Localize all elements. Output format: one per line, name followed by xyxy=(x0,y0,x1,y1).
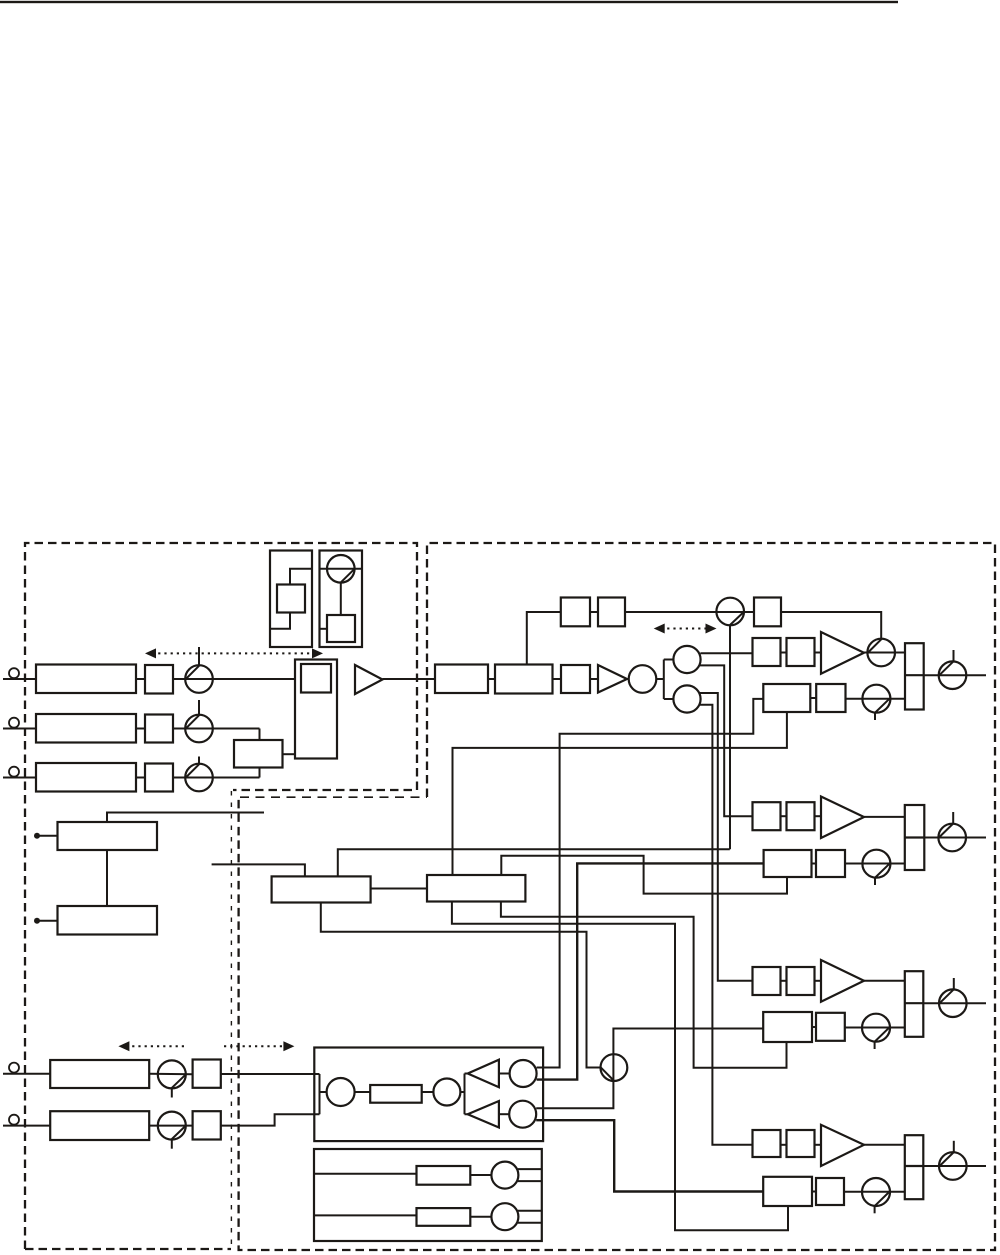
filter block F5 xyxy=(495,665,553,694)
G1 IF filter FL4 xyxy=(763,684,810,712)
output attenuator AT10 xyxy=(939,989,967,1017)
wire FL5 to Z6 xyxy=(812,863,817,865)
oscillator block U2 xyxy=(320,551,363,648)
AT2 control stem xyxy=(198,700,200,715)
amplifier A4 xyxy=(821,797,864,839)
amplifier A2 xyxy=(598,665,627,693)
control block U4 xyxy=(58,906,158,935)
RX Q-path wire MB to G2 IF filter xyxy=(537,863,764,1079)
wire Z3 to AT3 xyxy=(173,768,260,778)
Q-mixer upper wire to G3 xyxy=(699,693,752,981)
AT14 stem xyxy=(171,1088,173,1097)
wire Z5 to AT7 xyxy=(846,698,905,700)
wire F4 to F5 xyxy=(488,678,495,680)
LO tap to divider chain xyxy=(527,612,561,665)
dashed module A outline xyxy=(25,543,417,1249)
G3 filter block B3a xyxy=(753,967,781,995)
G3 filter block B3b xyxy=(787,967,815,995)
TX filter FL9 xyxy=(50,1111,149,1140)
AT10 stem xyxy=(953,978,955,990)
AT7 stem xyxy=(874,713,876,720)
bandpass filter FL2 xyxy=(36,714,136,743)
matching block Z10 xyxy=(193,1111,221,1139)
combiner CB1 xyxy=(234,740,283,768)
splitter to buffers xyxy=(460,1074,467,1115)
mixer box MB xyxy=(314,1048,543,1142)
loop filter LF2 xyxy=(417,1208,471,1226)
wire FL9 to AT15 xyxy=(149,1125,192,1127)
LO bus line to M6 (upper) xyxy=(537,1067,560,1069)
wire dot to U3 xyxy=(37,835,58,837)
divider block D1 xyxy=(561,598,590,627)
wire A3 to AT5 xyxy=(864,652,905,654)
top rule xyxy=(0,1,898,3)
bandpass filter FL1 xyxy=(36,665,136,694)
wire B4a-B4b xyxy=(781,1144,787,1146)
matching block Z6 xyxy=(816,850,845,877)
RX mixer M7 xyxy=(509,1101,536,1128)
wire A2 to MX1 xyxy=(627,678,629,680)
SW1 inner element xyxy=(301,664,331,693)
Q-upper bus wire to G2 xyxy=(699,665,752,816)
output attenuator AT8 xyxy=(938,824,966,852)
G3 IF filter FL6 xyxy=(763,1012,812,1042)
TX port P5 xyxy=(9,1115,19,1125)
TX filter FL8 xyxy=(50,1060,149,1088)
matching block Z8 xyxy=(816,1178,844,1205)
wire F10 to M5 xyxy=(422,1091,434,1093)
variable attenuator AT3 xyxy=(185,764,213,792)
SY2 top wire to G1 IF filter xyxy=(453,712,787,875)
U2 inner square xyxy=(327,615,355,642)
matching block Z7 xyxy=(816,1013,845,1041)
wire Z10 to mixer box xyxy=(221,1114,314,1125)
variable attenuator AT2 xyxy=(185,715,213,743)
TX tuning range arrow xyxy=(126,1045,287,1047)
synthesizer block SY1 xyxy=(272,876,371,902)
buffer amp A8 xyxy=(468,1101,499,1128)
wire FL6 to Z7 xyxy=(812,1026,816,1028)
mixer MX1 xyxy=(629,665,657,693)
G4 IF filter FL7 xyxy=(763,1177,812,1206)
variable attenuator AT15 xyxy=(158,1112,186,1140)
tuning range arrow (left module) xyxy=(152,652,316,654)
SY1 output to TX LO attenuator xyxy=(321,903,601,1068)
Q-mixer M3 xyxy=(673,685,700,712)
matching block Z1 xyxy=(145,665,173,694)
feedback wire AT4-bus to SY1 xyxy=(338,849,730,876)
U2 internal line xyxy=(320,568,363,570)
switch block SW1 xyxy=(295,660,337,759)
wire P1 to FL1 xyxy=(3,678,36,680)
dashed module A inner divider xyxy=(230,791,232,1249)
MB input bracket xyxy=(314,1074,326,1114)
wire CB3 to AT8 xyxy=(924,837,986,839)
combiner CB5 xyxy=(905,1135,924,1199)
matching block Z3 xyxy=(145,764,173,792)
AT12 stem xyxy=(953,1141,955,1153)
synthesizer block SY2 xyxy=(427,875,525,902)
wire CB1 to SW1 xyxy=(283,753,296,755)
G2 filter block B2b xyxy=(787,802,815,830)
RX input port P2 xyxy=(9,718,19,728)
reference wire into SY1 xyxy=(212,864,305,876)
wire FL7 to Z8 xyxy=(812,1191,816,1193)
RX input port P1 xyxy=(9,668,19,678)
U3 top stub wire xyxy=(107,813,264,823)
wire Z4 to A2 xyxy=(590,678,598,680)
wire B4b to A6 xyxy=(815,1144,822,1146)
amplifier A1 xyxy=(355,665,383,694)
amplifier A3 xyxy=(821,632,864,674)
AT9 stem xyxy=(874,878,876,885)
wire FL4 to Z5 xyxy=(810,697,816,699)
wire A1 to module B xyxy=(383,678,436,680)
variable attenuator AT13 xyxy=(862,1178,890,1206)
wire LF1 to VCO1 xyxy=(470,1174,491,1176)
variable attenuator AT5 xyxy=(867,639,895,667)
bandpass filter FL3 xyxy=(36,763,136,792)
SY2 bottom wire to G4 IF filter xyxy=(452,902,788,1231)
variable attenuator AT9 xyxy=(862,850,890,878)
calibration block U1 xyxy=(270,551,312,648)
U2 stub xyxy=(320,628,328,630)
PLL box PL xyxy=(314,1149,542,1241)
wire A6 to CB5 xyxy=(864,1144,905,1146)
wire A8 to M7 xyxy=(499,1113,509,1115)
wire B3a-B3b xyxy=(781,980,787,982)
G4 filter block B4a xyxy=(753,1130,781,1157)
combiner CB4 xyxy=(905,971,924,1037)
dashed module B inner divider xyxy=(240,796,427,798)
buffer amp A7 xyxy=(468,1060,499,1088)
I-mixer upper wire to G1 xyxy=(700,652,752,654)
splitter bracket xyxy=(656,660,673,700)
AT8 stem xyxy=(952,812,954,824)
G2 filter block B2a xyxy=(753,802,781,830)
TX mixer M4 xyxy=(327,1078,355,1106)
amplifier A6 xyxy=(821,1125,864,1166)
VCO1 xyxy=(491,1162,518,1189)
LO attenuator AT16 xyxy=(601,1054,628,1081)
output attenuator AT6 xyxy=(939,661,967,689)
G1 filter block B1b xyxy=(787,638,815,666)
wire A7 to M6 xyxy=(499,1073,510,1075)
U1 internal wiring xyxy=(290,569,312,585)
wire U3 to U4 xyxy=(106,850,108,906)
variable attenuator AT14 xyxy=(158,1060,186,1088)
wire B3b to A5 xyxy=(815,980,822,982)
wire Z2 to AT2 xyxy=(173,729,260,741)
wire P2 to FL2 xyxy=(3,728,36,730)
AT1 control stem xyxy=(198,647,200,665)
matching block Z5 xyxy=(816,684,845,712)
wire P5 to FL9 xyxy=(3,1125,50,1127)
VCO2 output stubs xyxy=(518,1211,542,1223)
PLL chain 1 wire xyxy=(314,1173,417,1175)
wire Z1 to AT1 xyxy=(173,678,295,680)
variable attenuator AT11 xyxy=(862,1014,890,1042)
tuning range arrow (module B) xyxy=(661,628,709,630)
PLL chain 2 wire xyxy=(314,1214,417,1216)
wire B2a-B2b xyxy=(781,815,787,817)
AT11 stem xyxy=(874,1042,876,1049)
wire B1b to A3 xyxy=(815,652,822,654)
divider block D3 xyxy=(754,598,781,627)
variable attenuator AT7 xyxy=(862,685,890,713)
RX I2-path wire MB to G3 IF filter xyxy=(536,1029,763,1109)
wire CB5 to AT12 xyxy=(923,1165,986,1167)
RX mixer M6 xyxy=(510,1060,537,1087)
G4 filter block B4b xyxy=(787,1130,815,1157)
wire Z9 to mixer box xyxy=(221,1073,314,1075)
matching block Z9 xyxy=(193,1060,221,1088)
wire CB2 to AT6 xyxy=(924,674,986,676)
RX Q2-path wire MB to G4 IF filter xyxy=(536,1120,763,1191)
divider block D2 xyxy=(598,598,625,627)
U4 input dot xyxy=(34,918,40,924)
wire SY1 to SY2 xyxy=(371,888,427,890)
VCO2 xyxy=(491,1203,518,1230)
loop filter LF1 xyxy=(417,1166,471,1185)
AT4 output bus down xyxy=(729,625,731,849)
VCO1 output stubs xyxy=(518,1169,542,1181)
control block U3 xyxy=(58,822,158,850)
amplifier A5 xyxy=(821,960,864,1002)
U1 inner square xyxy=(277,585,305,613)
RX I-path wire MB to G1 IF filter xyxy=(537,699,763,1068)
output attenuator AT12 xyxy=(939,1152,967,1180)
wire D2 to AT4 xyxy=(625,611,754,613)
feedback wire D3 to AT5 xyxy=(781,612,881,639)
G1 filter block B1a xyxy=(753,638,781,666)
SY2 top wire to G2 IF filter xyxy=(501,856,787,894)
wire A5 to CB4 xyxy=(864,980,905,982)
variable attenuator AT4 xyxy=(716,598,744,626)
matching block Z4 xyxy=(561,665,590,693)
wire FL1 to Z1 xyxy=(136,678,145,680)
wire B1a-B1b xyxy=(781,652,787,654)
G2 IF filter FL5 xyxy=(764,850,812,877)
matching block Z2 xyxy=(145,715,173,743)
wire P4 to FL8 xyxy=(3,1073,50,1075)
SY2 bottom wire to G3 IF filter xyxy=(501,902,787,1068)
wire LF2 to VCO2 xyxy=(470,1216,491,1218)
dashed module B outline xyxy=(239,543,995,1250)
combiner CB2 xyxy=(905,643,924,709)
wire Z8 to AT13 xyxy=(844,1191,905,1193)
U2 vertical link xyxy=(340,583,342,616)
wire Z7 to AT11 xyxy=(845,1027,905,1029)
TX port P4 xyxy=(9,1063,19,1073)
AT15 stem xyxy=(171,1140,173,1149)
wire dot to U4 xyxy=(37,920,58,922)
wire M4 to F10 xyxy=(355,1091,371,1093)
wire D1 to D2 xyxy=(590,611,598,613)
U2 oscillator circle xyxy=(327,555,355,583)
wire P3 to FL3 xyxy=(3,777,36,779)
wire Z6 to AT9 xyxy=(845,863,905,865)
wire CB4 to AT10 xyxy=(923,1002,986,1004)
wire FL2 to Z2 xyxy=(136,728,145,730)
I-mixer M2 xyxy=(673,646,700,673)
wire B2b to A4 xyxy=(815,815,822,817)
wire F5 to Z4 xyxy=(553,678,562,680)
combiner CB3 xyxy=(905,805,925,870)
variable attenuator AT1 xyxy=(185,665,213,693)
Q-mixer lower wire to G4 xyxy=(699,705,753,1145)
filter block F10 xyxy=(370,1085,422,1103)
filter block F4 xyxy=(435,665,488,694)
RX input port P3 xyxy=(9,767,19,777)
U3 input dot xyxy=(34,833,40,839)
wire FL3 to Z3 xyxy=(136,777,145,779)
wire A4 to CB3 xyxy=(864,816,905,818)
wire FL8 to AT14 xyxy=(149,1073,192,1075)
TX mixer M5 xyxy=(433,1079,460,1106)
AT13 stem xyxy=(874,1206,876,1213)
AT3 control stem xyxy=(198,757,200,764)
AT6 stem xyxy=(953,650,955,662)
